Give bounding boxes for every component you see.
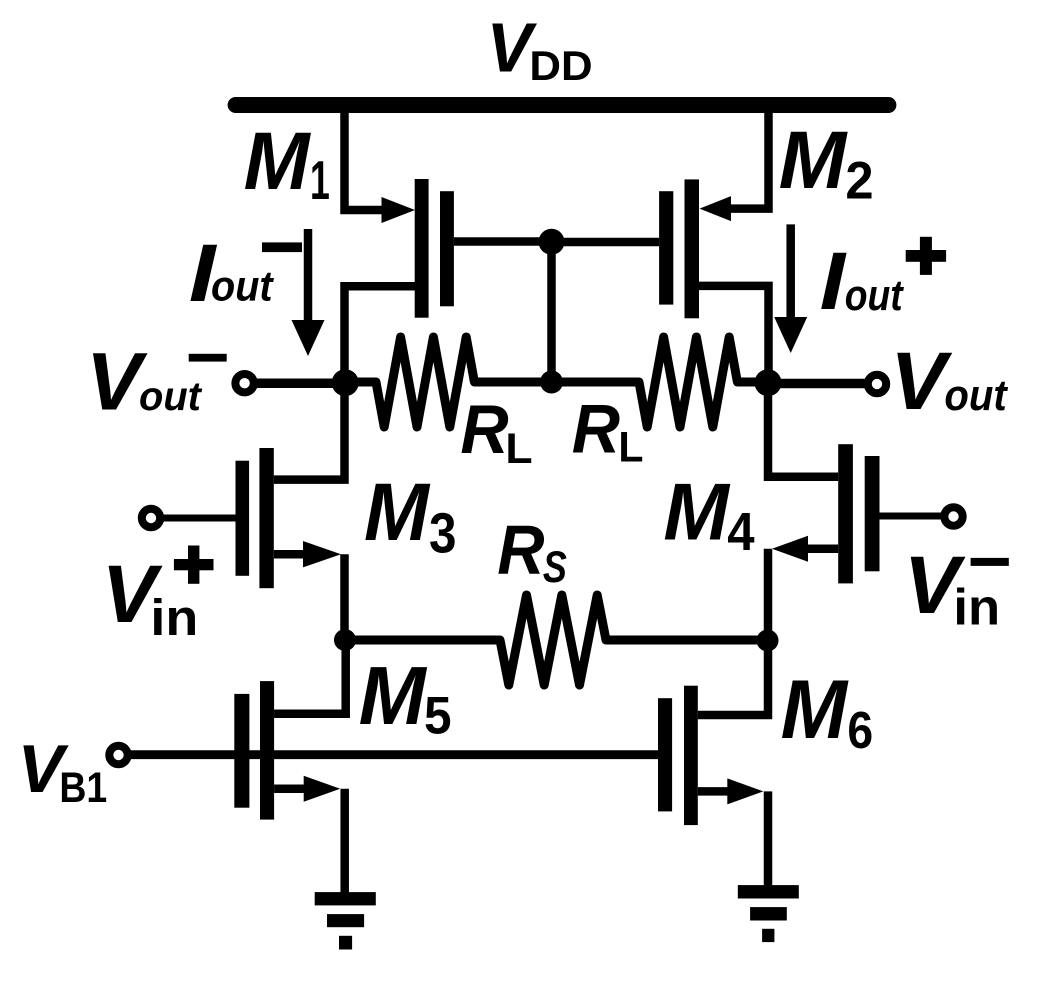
svg-text:5: 5 — [424, 686, 452, 745]
wire node G down to RL midpoint — [547, 242, 556, 382]
terminal Vin- open circle — [944, 507, 962, 525]
transistor M4 channel plate — [838, 444, 853, 583]
wire M1 source from VDD rail — [345, 101, 384, 210]
wire M5 source down to ground — [340, 789, 349, 894]
transistor M5 gate plate — [234, 694, 249, 808]
svg-text:in: in — [953, 579, 1000, 636]
svg-text:M: M — [364, 466, 430, 557]
label M1 — [244, 116, 312, 207]
svg-text:B1: B1 — [59, 763, 107, 811]
node RL midpoint — [540, 371, 563, 394]
ground symbol M5 — [315, 892, 376, 905]
transistor M1 channel plate — [415, 179, 429, 318]
label VB1 — [18, 732, 70, 807]
M3 source arrow — [303, 541, 341, 567]
label Iout+ with plus — [820, 237, 847, 327]
M1 source arrow — [382, 197, 416, 223]
resistor RL right — [552, 337, 769, 427]
wire to Vout+ terminal — [768, 379, 867, 389]
wire VB1 bias line — [131, 750, 658, 759]
transistor M5 channel plate — [260, 681, 274, 820]
svg-text:6: 6 — [847, 701, 873, 759]
wire M1 drain — [345, 286, 419, 386]
svg-text:M: M — [781, 664, 850, 757]
node G gate junction — [539, 229, 565, 255]
M5 source arrow — [304, 776, 341, 802]
label RL right — [572, 392, 620, 468]
wire M4 drain — [768, 382, 838, 477]
transistor M6 gate plate — [658, 698, 672, 811]
Iout+ current arrow — [786, 224, 795, 322]
svg-text:1: 1 — [310, 149, 330, 211]
label VDD — [487, 9, 538, 87]
wire M4 source — [798, 544, 838, 553]
wire M1 gate to node G — [454, 237, 551, 246]
wire M5 source — [274, 784, 312, 793]
label M3 — [364, 466, 430, 557]
svg-text:R: R — [460, 392, 508, 468]
svg-text:in: in — [150, 590, 198, 646]
terminal Vout+ open circle — [868, 375, 886, 393]
resistor RS — [345, 595, 767, 685]
terminal VB1 open circle — [109, 746, 127, 764]
svg-text:L: L — [618, 423, 643, 471]
svg-text:out: out — [211, 262, 275, 310]
label RL left — [460, 392, 508, 468]
wire Vin- gate lead — [880, 513, 942, 520]
svg-text:M: M — [359, 650, 428, 742]
label M5 — [359, 650, 428, 742]
label Vin+ with plus — [102, 550, 163, 641]
transistor M1 gate plate — [440, 191, 454, 306]
transistor M3 gate plate — [236, 461, 250, 576]
svg-text:4: 4 — [727, 502, 755, 561]
wire M3 source down to node S1 — [340, 554, 349, 640]
resistor RL left — [345, 337, 552, 427]
transistor M4 gate plate — [865, 456, 880, 571]
label Vout+ — [890, 335, 953, 427]
M2 source arrow — [700, 196, 732, 221]
svg-text:DD: DD — [529, 43, 592, 90]
label Vin- with minus — [904, 539, 966, 631]
ground symbol M6 — [738, 885, 799, 898]
transistor M2 channel plate — [685, 179, 700, 318]
node S1 junction — [334, 629, 356, 651]
svg-text:R: R — [497, 512, 545, 589]
wire Vin+ gate lead — [164, 515, 236, 522]
M6 source arrow — [727, 778, 763, 804]
wire M5 drain from node S1 — [274, 640, 346, 714]
label M2 — [779, 115, 849, 206]
svg-text:out: out — [845, 270, 904, 319]
svg-text:out: out — [139, 372, 202, 419]
label M4 — [663, 467, 730, 557]
svg-text:M: M — [779, 115, 849, 206]
transistor M2 gate plate — [659, 191, 673, 304]
wire M3 drain — [274, 382, 345, 480]
svg-text:3: 3 — [429, 502, 457, 565]
svg-text:S: S — [543, 541, 567, 592]
label Iout- with minus — [189, 227, 218, 318]
svg-text:I: I — [820, 237, 847, 327]
svg-text:M: M — [244, 116, 312, 207]
M4 source arrow — [772, 536, 808, 562]
label M6 — [781, 664, 850, 757]
wire M6 source down to ground — [764, 791, 773, 887]
wire M6 source — [698, 787, 733, 796]
Iout- current arrow — [304, 229, 313, 326]
svg-text:M: M — [663, 467, 730, 557]
svg-text:out: out — [944, 370, 1008, 419]
wire to Vout- terminal — [255, 379, 345, 389]
wire M2 gate to node G — [551, 238, 659, 247]
wire M6 drain from node S2 — [698, 640, 768, 715]
terminal Vout- open circle — [235, 374, 253, 392]
terminal Vin+ open circle — [142, 509, 160, 527]
wire M2 drain — [695, 286, 769, 386]
node Vout- junction — [332, 369, 359, 396]
transistor M3 channel plate — [259, 448, 273, 588]
wire M2 source from VDD rail — [729, 101, 769, 209]
VDD power rail — [236, 97, 889, 113]
node Vout+ junction — [755, 369, 782, 396]
transistor M6 channel plate — [684, 686, 698, 825]
label Vout- with minus — [86, 335, 148, 427]
svg-text:L: L — [505, 425, 532, 473]
wire M3 source — [274, 550, 315, 559]
wire M4 source down to node S2 — [764, 549, 773, 640]
svg-text:2: 2 — [845, 151, 873, 210]
node S2 junction — [757, 630, 779, 652]
svg-text:R: R — [572, 392, 620, 468]
label RS — [497, 512, 545, 589]
